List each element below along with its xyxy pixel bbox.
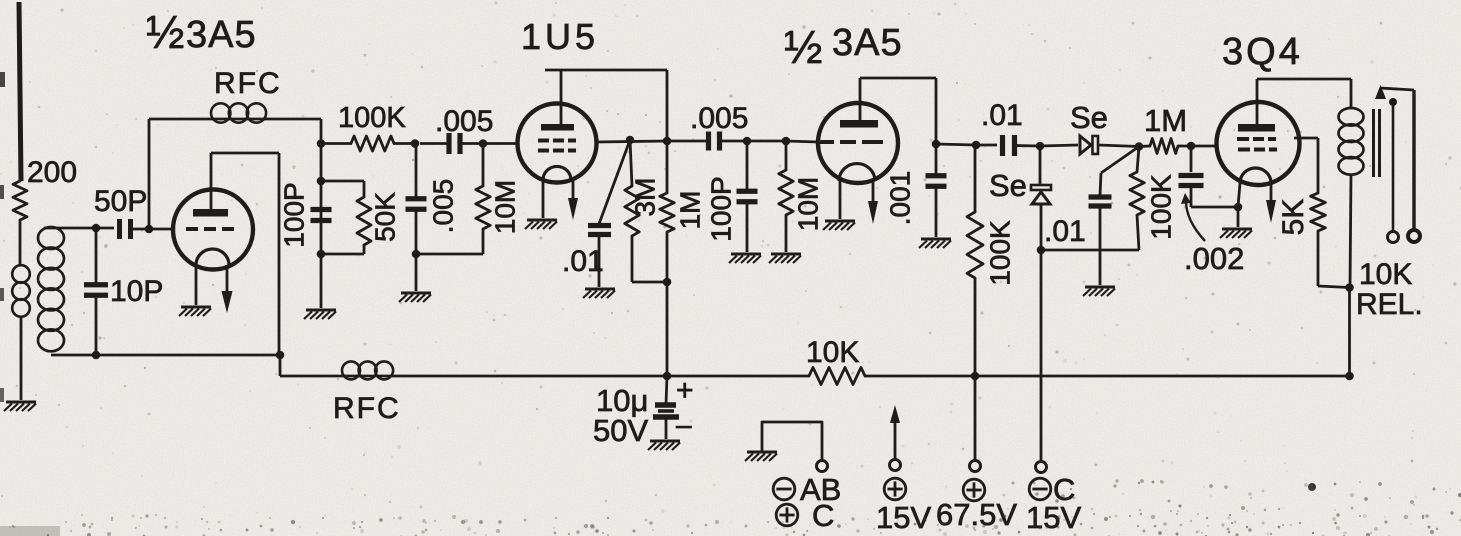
label C — [812, 498, 834, 533]
node 005 shunt bottom — [412, 250, 483, 291]
capacitor 10uF electrolytic — [653, 376, 679, 439]
node 005 coupling left — [411, 139, 420, 148]
inductor RFC (plate choke) — [149, 103, 321, 122]
wire U2 grid-cap riser — [545, 70, 667, 124]
svg-text:15V: 15V — [1026, 500, 1081, 535]
label 10K (rail) — [806, 336, 859, 369]
capacitor 100P (second) — [737, 141, 758, 252]
capacitor 10P — [84, 228, 108, 355]
label RFC — [214, 67, 282, 100]
inductor RFC (bottom) — [342, 361, 393, 379]
label .005 (second) — [690, 102, 748, 135]
symbol minus AB — [773, 478, 795, 500]
node 002 top — [1187, 142, 1217, 151]
label 1M (first) — [675, 191, 706, 230]
svg-text:50K: 50K — [370, 192, 401, 242]
scan edge artifacts — [0, 72, 1316, 536]
label 10P — [110, 275, 163, 308]
svg-text:Se: Se — [1070, 100, 1108, 135]
node shunt diode bottom — [1037, 246, 1139, 461]
symbol plus 67.5V — [963, 479, 985, 501]
svg-text:RFC: RFC — [333, 392, 401, 425]
label Se (series) — [1070, 100, 1108, 135]
label 1M (grid) — [1144, 103, 1187, 138]
symbol plus C — [776, 504, 798, 526]
ground (.005 shunt) — [399, 293, 431, 302]
capacitor .01 (U2 bypass) — [588, 140, 630, 287]
wire U1 filament left leg — [195, 265, 198, 305]
arrow U3 filament B- — [868, 181, 878, 224]
diode Se (shunt) — [1031, 146, 1051, 250]
node 100P top — [317, 177, 326, 186]
wire AB bracket — [762, 422, 822, 460]
label 1U5 — [521, 16, 599, 57]
resistor 1M (first) — [660, 70, 674, 376]
arrow U2 filament B- — [568, 180, 578, 220]
label 15V — [876, 500, 931, 535]
resistor 10M (first) — [476, 144, 490, 255]
wire (bottom of stage 1) — [96, 354, 280, 357]
ground (U3 filament) — [823, 221, 855, 230]
label 200 — [27, 156, 77, 189]
wire U3 filament left leg — [839, 181, 842, 219]
node U3 plate — [932, 140, 976, 149]
pentode U4 3Q4 — [1217, 102, 1300, 185]
arrow U1 filament B- — [222, 265, 233, 313]
annotation arrow .002 — [1181, 193, 1205, 241]
svg-text:.001: .001 — [885, 171, 916, 226]
svg-text:.002: .002 — [1184, 241, 1244, 276]
triode U1 half 3A5 (detector) — [173, 190, 253, 270]
label Se (shunt) — [989, 168, 1027, 203]
pentode U2 1U5 — [518, 104, 597, 183]
label 100K (AGC) — [1146, 174, 1177, 240]
svg-text:100P: 100P — [279, 182, 310, 247]
wire U2 plate out — [596, 141, 668, 142]
resistor 200 (antenna series) — [13, 181, 27, 266]
label 3Q4 — [1222, 31, 1303, 73]
antenna coil primary L1 — [12, 265, 30, 400]
svg-text:3A5: 3A5 — [832, 22, 903, 64]
svg-text:100K: 100K — [985, 220, 1016, 286]
wire plate top loop U1 — [211, 153, 279, 355]
svg-text:–: – — [676, 409, 692, 440]
node U2 plate — [626, 136, 635, 145]
label 50K — [370, 192, 401, 242]
svg-text:Se: Se — [989, 168, 1027, 203]
label 50V — [593, 413, 648, 448]
node rail end — [1345, 372, 1354, 381]
svg-text:+: + — [676, 374, 694, 407]
capacitor .001 — [926, 144, 947, 237]
svg-text:100K: 100K — [338, 102, 406, 134]
wire B- rail — [280, 355, 1350, 376]
resistor 100K (grid leak) — [321, 136, 415, 151]
svg-text:10M: 10M — [490, 180, 521, 234]
svg-text:½: ½ — [146, 6, 184, 58]
svg-text:10K: 10K — [806, 336, 859, 369]
label 1/2 3A5 (second) — [784, 21, 903, 73]
svg-text:50P: 50P — [94, 185, 147, 218]
label .01 (third) — [1044, 215, 1086, 248]
transformer primary (relay coil) — [1339, 108, 1364, 288]
svg-text:200: 200 — [27, 156, 77, 189]
capacitor .01 (second) — [1003, 135, 1041, 156]
node 1M-main junction — [663, 137, 672, 146]
svg-text:5K: 5K — [1277, 199, 1310, 236]
svg-text:C: C — [812, 498, 834, 533]
ground (.01 U2) — [583, 289, 615, 298]
arrow U4 filament B- — [1266, 183, 1276, 223]
label 67.5V — [936, 497, 1017, 532]
label .005 (shunt) — [428, 179, 459, 234]
label 100K (plate load) — [985, 220, 1016, 286]
label 15V (right) — [1026, 500, 1081, 535]
svg-text:10K: 10K — [1359, 258, 1412, 291]
resistor 1M (grid) — [1139, 139, 1191, 154]
terminal -C 15V — [1036, 462, 1047, 473]
capacitor .005 (coupling) — [420, 133, 517, 154]
antenna lead-in — [19, 2, 21, 181]
ground (.001) — [919, 239, 951, 248]
capacitor .01 (third) — [1089, 147, 1140, 286]
wire 100P branch — [320, 144, 323, 255]
relay contact 2 (arrow) — [1375, 85, 1420, 242]
svg-text:RFC: RFC — [214, 67, 282, 100]
svg-text:.01: .01 — [562, 245, 604, 278]
resistor 50K — [321, 181, 371, 254]
label .005 (coupling) — [435, 105, 493, 138]
label .002 — [1184, 241, 1244, 276]
resistor 5K — [1294, 138, 1349, 288]
relay contact 1 — [1388, 98, 1399, 243]
wire U2 filament left leg — [542, 180, 545, 218]
label 1/2 3A5 (first) — [146, 6, 257, 58]
node 3M bottom — [663, 278, 672, 287]
terminal +15V arrow — [890, 405, 901, 471]
resistor 10M (second) — [779, 141, 793, 252]
node 50P-RFC junction — [145, 225, 154, 234]
triode U3 half 3A5 — [818, 103, 898, 183]
wire U4 plate top loop — [1257, 79, 1351, 124]
svg-text:3A5: 3A5 — [186, 14, 257, 56]
resistor 100K (plate load) — [967, 145, 983, 376]
ground (10uF) — [648, 441, 680, 450]
svg-text:.005: .005 — [435, 105, 493, 138]
node 100P2 top — [743, 137, 786, 146]
symbol plus 15V — [884, 478, 906, 500]
wire grid to RFC riser — [148, 119, 151, 229]
node main-1M junction — [1135, 142, 1144, 151]
ground (100P second) — [729, 254, 761, 263]
ground (U2 filament) — [525, 220, 557, 229]
label plus — [676, 374, 694, 407]
wire RFC to B+ node — [320, 119, 323, 144]
svg-text:50V: 50V — [593, 413, 648, 448]
label 10M (second) — [793, 177, 824, 231]
resistor 3M — [625, 140, 667, 282]
ground (antenna coil) — [4, 402, 36, 411]
svg-text:½: ½ — [784, 21, 822, 73]
node 100P bottom — [317, 250, 326, 259]
svg-text:REL.: REL. — [1356, 288, 1423, 321]
transformer core — [1374, 109, 1380, 177]
label .01 (U2) — [562, 245, 604, 278]
svg-text:10M: 10M — [793, 177, 824, 231]
node U4 filament junction — [1234, 183, 1243, 227]
ground (AB bracket) — [745, 452, 777, 461]
ground (10M second) — [769, 254, 801, 263]
node 10M top — [479, 139, 488, 148]
node rail-10u — [663, 372, 672, 381]
label 10u — [596, 383, 648, 418]
svg-text:1M: 1M — [1144, 103, 1187, 138]
node plate/bottom junction — [276, 351, 285, 360]
label 10K (relay) — [1359, 258, 1412, 291]
symbol minus C — [1029, 478, 1051, 500]
svg-text:1M: 1M — [675, 191, 706, 230]
label .01 (second) — [981, 99, 1023, 132]
wire U3 plate top loop — [860, 78, 936, 144]
svg-text:100K: 100K — [1146, 174, 1177, 240]
label C (right) — [1053, 472, 1075, 507]
node coil-bottom junction — [92, 351, 101, 360]
label 100P (first) — [279, 182, 310, 247]
label 10M (first) — [490, 180, 521, 234]
node REL junction — [1345, 283, 1354, 376]
node Se junction — [1036, 142, 1078, 151]
node rail-67V — [971, 372, 980, 381]
label 100K — [338, 102, 406, 134]
label 100P (second) — [706, 176, 737, 241]
capacitor .005 (shunt) — [406, 144, 427, 255]
tuning coil secondary L2 — [38, 227, 96, 355]
label 50P — [94, 185, 147, 218]
label .001 — [885, 171, 916, 226]
terminal AB/C — [817, 461, 828, 472]
svg-text:3M: 3M — [630, 178, 661, 217]
node B1 — [317, 139, 326, 148]
svg-text:1U5: 1U5 — [521, 16, 599, 57]
wire to ground — [320, 254, 323, 308]
svg-text:.005: .005 — [690, 102, 748, 135]
svg-text:15V: 15V — [876, 500, 931, 535]
node grid-top junction — [92, 224, 101, 233]
label 3M — [630, 178, 661, 217]
label AB — [800, 472, 841, 507]
resistor 100K (AGC) — [1130, 147, 1144, 251]
ground (100P/50K) — [304, 310, 336, 319]
ground (U1 filament) — [179, 307, 211, 316]
ground (U4 filament) — [1220, 229, 1252, 238]
capacitor .005 (second coupling) — [668, 132, 747, 151]
capacitor .002 — [1179, 146, 1239, 207]
ground (.01 third) — [1083, 287, 1115, 296]
node 10M2 top — [782, 137, 818, 146]
label 5K — [1277, 199, 1310, 236]
terminal 67.5V — [970, 376, 981, 472]
svg-text:100P: 100P — [706, 176, 737, 241]
svg-text:.01: .01 — [1044, 215, 1086, 248]
resistor 10K (rail) — [809, 368, 865, 385]
svg-text:.005: .005 — [428, 179, 459, 234]
capacitor 100P (first) — [311, 210, 332, 221]
node 100K1 top — [972, 141, 997, 150]
capacitor 50P — [96, 219, 174, 239]
label REL — [1356, 288, 1423, 321]
label RFC (bottom) — [333, 392, 401, 425]
diode Se (series) — [1080, 136, 1139, 154]
svg-text:10P: 10P — [110, 275, 163, 308]
svg-text:67.5V: 67.5V — [936, 497, 1017, 532]
svg-text:3Q4: 3Q4 — [1222, 31, 1303, 73]
label minus — [676, 409, 692, 440]
svg-text:.01: .01 — [981, 99, 1023, 132]
